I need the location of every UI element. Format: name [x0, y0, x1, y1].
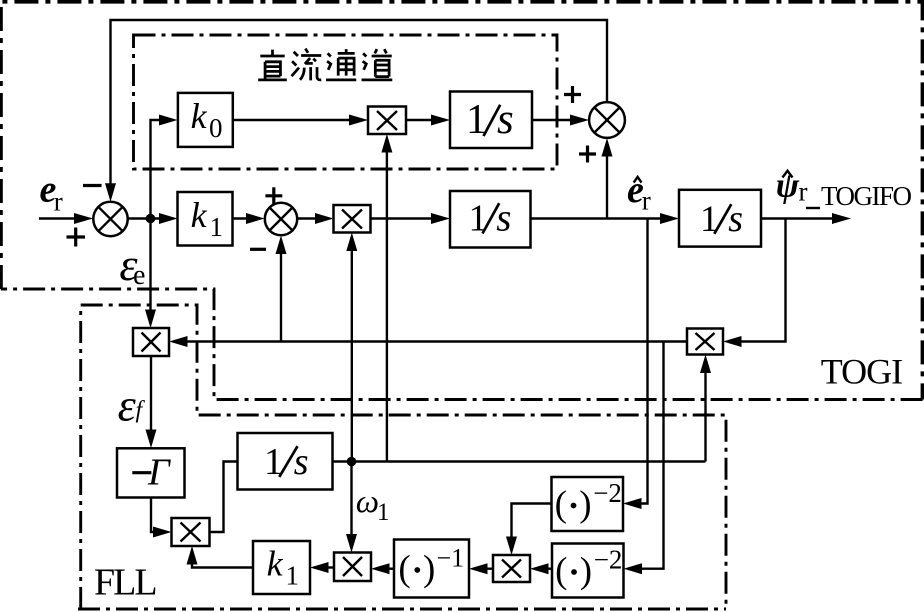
glyph 直 [258, 50, 287, 80]
block squarer upper (.)^-2 [552, 477, 624, 531]
wire: node B down (omega1) into M6 top [346, 462, 357, 553]
svg-text:(: ( [398, 549, 410, 590]
label 直流通道 (DC channel), drawn glyphs [258, 49, 392, 81]
wire: M3 output feedback left to epsilon multiplier M4 [169, 336, 687, 347]
svg-text:1: 1 [210, 212, 224, 242]
FLL dash-dot boundary [78, 305, 726, 609]
wire: main line tap down to upper squarer input [623, 219, 648, 510]
svg-text:r: r [54, 187, 63, 217]
multiplier M7 (squares product) [493, 555, 530, 582]
wire: M1 to DC integrator 1/s [406, 115, 450, 126]
glyph 道 [362, 49, 393, 80]
label epsilon_e [119, 239, 145, 291]
svg-text:): ) [423, 549, 435, 590]
glyph 流 [292, 49, 322, 81]
svg-text:1: 1 [286, 561, 300, 591]
multiplier M6 (omega1 chain) [334, 553, 371, 582]
wire: S3 output up, across top, down into S1 (minus input) [105, 20, 607, 202]
summing junction S2 (circle with X) [265, 203, 297, 235]
svg-text:−1: −1 [437, 544, 465, 573]
block inverse (.)^-1 [394, 540, 469, 598]
wire: feedback tap down to lower squarer input [624, 342, 664, 575]
multiplier M3 (TOGI feedback) [687, 329, 723, 355]
svg-text:k: k [191, 195, 208, 235]
svg-text:(: ( [555, 551, 567, 592]
wire: S2 to multiplier M2 [297, 213, 334, 224]
wire: k1 to summing junction S2 [233, 213, 265, 224]
wire: M2 to integrator 1/s (row 2) [371, 213, 451, 224]
wire: node A up to k0 input [151, 115, 178, 219]
sign + below-left S1 [67, 228, 86, 247]
glyph 通 [326, 49, 356, 80]
svg-text:TOGIFO: TOGIFO [821, 181, 912, 211]
wire: -Gamma down then right into FLL multiplier M5 [151, 498, 172, 538]
block k0 [178, 93, 233, 147]
wire: omega1 right end up into M3 bottom input [700, 355, 711, 462]
sign + above-left S2 [265, 187, 282, 204]
block -Gamma [117, 448, 185, 497]
node A junction dot [146, 214, 156, 224]
label psi hat r_TOGIFO (output) [776, 166, 912, 211]
wire: upper squarer output left then down into M7 top [506, 504, 552, 556]
wire: main line up into S3 bottom (plus input) [602, 138, 613, 219]
label e_r (input) [40, 169, 63, 217]
TOGI outer dash-dot boundary [1, 2, 923, 400]
DC-channel dash-dot box (直流通道) [134, 35, 558, 169]
svg-text:e: e [133, 260, 145, 291]
svg-text:s: s [497, 96, 514, 143]
summing junction S1 (circle with X) [93, 202, 127, 236]
wire: k0 to multiplier M1 [233, 115, 368, 126]
svg-text:k: k [191, 96, 208, 136]
wire: node A down to epsilon multiplier M4 top [145, 219, 156, 329]
wire: S1 to node A (junction dot) to k1 [128, 213, 178, 224]
svg-text:ω: ω [356, 484, 379, 520]
block squarer lower (.)^-2 [552, 544, 624, 598]
svg-text:0: 0 [209, 113, 223, 143]
svg-text:1: 1 [377, 499, 390, 526]
svg-text:(: ( [555, 484, 567, 525]
wire: final 1/s output arrow [761, 213, 851, 224]
wire: M6 output to k1 (FLL) [310, 562, 334, 573]
block k1 (main) [178, 192, 233, 246]
label TOGI [821, 352, 902, 392]
wire: M5 output right, up, into FLL integrator 1/s [210, 462, 238, 533]
svg-text:Γ: Γ [147, 452, 171, 494]
integrator 1/s (FLL) [238, 433, 333, 490]
integrator 1/s (DC channel) [450, 92, 532, 149]
wire: lower squarer output to M7 [530, 563, 552, 574]
sign - below-left S2 [250, 248, 266, 251]
svg-text:1: 1 [469, 198, 488, 240]
wire: input e_r to summing junction S1 [39, 213, 93, 224]
label FLL [94, 562, 156, 604]
wire: FLL 1/s output to node B [333, 460, 706, 462]
wire: output tap down and left into TOGI multiplier M3 right input [723, 219, 786, 348]
block k1 (FLL) [253, 541, 310, 594]
wire: M7 output to inverse block [469, 563, 493, 574]
svg-text:): ) [580, 551, 592, 592]
svg-text:s: s [728, 198, 743, 240]
wire: feedback tap up into S2 bottom (minus input) [276, 236, 287, 342]
sign + above-left S3 [564, 86, 581, 103]
svg-text:TOGI: TOGI [821, 352, 902, 392]
label e_r hat (estimated) [627, 169, 651, 216]
multiplier M1 (DC channel) [368, 107, 406, 135]
wire: DC 1/s to summing junction S3 [532, 115, 589, 126]
node B junction dot [347, 457, 357, 467]
multiplier M4 (epsilon_e) [133, 328, 169, 356]
integrator 1/s (main row) [450, 191, 531, 248]
wire: k1 (FLL) output left and up into M5 bottom [187, 546, 254, 568]
svg-text:): ) [579, 484, 591, 525]
svg-text:k: k [267, 544, 284, 584]
label epsilon_f [118, 380, 146, 431]
wire: inverse block output to M6 [371, 563, 394, 574]
svg-text:s: s [294, 441, 309, 483]
svg-text:r: r [642, 186, 651, 216]
multiplier M2 (main row) [334, 205, 371, 233]
summing junction S3 (circle with X) [589, 102, 625, 138]
svg-text:s: s [496, 197, 511, 240]
wire: 1/s row2 output to final 1/s, with taps [531, 213, 680, 224]
svg-text:FLL: FLL [94, 562, 156, 604]
wire: M4 down to -Gamma block (epsilon_f) [146, 356, 157, 448]
sign - above S1 [83, 184, 102, 187]
sign + below-left S3 [579, 146, 596, 163]
svg-text:−2: −2 [594, 545, 623, 575]
label omega1 [356, 484, 390, 526]
svg-text:−2: −2 [593, 478, 622, 508]
wire: omega1 line up from node B tap to M1 bottom input [381, 134, 392, 462]
svg-text:ε: ε [118, 380, 137, 431]
wire: node B up to M2 bottom input [346, 233, 357, 462]
integrator 1/s (output) [679, 190, 761, 247]
multiplier M5 (FLL) [172, 518, 210, 546]
svg-text:r: r [799, 177, 808, 207]
